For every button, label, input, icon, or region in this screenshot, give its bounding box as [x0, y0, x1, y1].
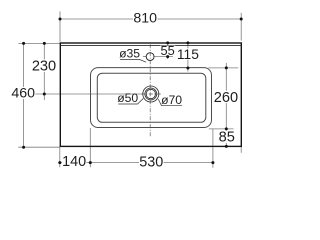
- leader line for label ø35: [120, 59, 146, 62]
- dim line 55 vertical: [167, 43, 169, 59]
- svg-text:85: 85: [219, 129, 235, 145]
- dim line 260-85 vertical: [225, 63, 227, 146]
- dim line 140-530: [60, 162, 213, 164]
- white masks behind dimension texts: [11, 11, 239, 167]
- extension line basin-right bottom: [212, 129, 214, 168]
- svg-text:260: 260: [214, 90, 238, 106]
- centreline vertical dashed: [149, 44, 151, 137]
- svg-text:530: 530: [139, 154, 163, 170]
- svg-text:460: 460: [11, 86, 35, 102]
- extension line faucet-centre right: [154, 56, 173, 58]
- svg-text:ø50: ø50: [117, 91, 138, 105]
- leader line for label ø50: [118, 98, 143, 104]
- extension line drain-centre horizontal: [35, 93, 140, 95]
- basin outer rim: [91, 68, 212, 128]
- svg-text:230: 230: [32, 58, 56, 74]
- extension line right of 810: [240, 13, 242, 41]
- faucet hole circle: [146, 53, 154, 61]
- extension line left of 810: [59, 11, 61, 41]
- centreline horizontal dashed at drain: [141, 93, 162, 95]
- svg-text:140: 140: [62, 154, 86, 170]
- extension line top-left horizontal: [18, 42, 60, 44]
- countertop back edge inner line: [61, 45, 241, 47]
- centreline dash left of faucet: [143, 56, 146, 58]
- dim line 115 vertical: [187, 43, 189, 72]
- dim line 810: [60, 18, 241, 20]
- leader line for label ø70: [158, 99, 182, 106]
- svg-text:810: 810: [133, 11, 157, 27]
- extension line basin-bottom right: [209, 128, 234, 130]
- extension line basin-top right: [208, 67, 238, 69]
- dim line 460 vertical: [23, 43, 25, 147]
- extension line counter bottom-left: [59, 148, 61, 168]
- extension line basin-left bottom: [89, 128, 91, 167]
- svg-text:ø70: ø70: [161, 93, 182, 107]
- drain middle circle: [145, 88, 157, 100]
- drain outer circle: [143, 86, 159, 102]
- svg-text:ø35: ø35: [119, 47, 140, 61]
- dimension end dots: [22, 18, 243, 165]
- countertop outline: [60, 43, 241, 146]
- extension line bottom-left horizontal: [18, 146, 60, 148]
- dim line 230 vertical: [43, 43, 45, 100]
- drain inner circle: [146, 89, 155, 98]
- svg-text:115: 115: [177, 47, 199, 62]
- basin inner rim: [97, 73, 206, 122]
- extension tail counter bottom-right: [240, 147, 242, 153]
